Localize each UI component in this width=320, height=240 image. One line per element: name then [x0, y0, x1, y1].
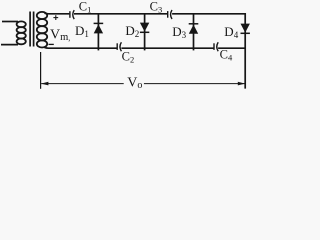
- wire: diode D2 branch: [144, 14, 146, 51]
- diode D4 (cathode down): [241, 24, 250, 34]
- wire: top rail from secondary to C1: [45, 12, 70, 15]
- wire: diode D3 branch: [193, 14, 195, 51]
- Vo dimension arrow left: [41, 82, 124, 86]
- capacitor C3: [168, 10, 172, 19]
- minus sign at secondary bottom: [49, 43, 54, 45]
- wire: middle rail node D (C4 to bottom-right corner): [218, 47, 245, 49]
- wire: diode D1 branch: [97, 14, 99, 51]
- wire: Vo left extension line: [40, 52, 42, 89]
- wire: top rail node B (C3 to top-right corner): [172, 14, 245, 23]
- wire: middle rail from secondary to C2: [45, 46, 118, 49]
- capacitor C4: [214, 42, 218, 51]
- diode D1 (cathode up): [94, 23, 104, 33]
- wire: top rail node A (C1 to C3, taps D1 D2): [74, 13, 168, 15]
- wire: middle rail node C (C2 to C4, taps D2 D3): [121, 47, 213, 49]
- transformer T1 secondary winding: [37, 12, 47, 48]
- diode D2 (cathode down): [140, 23, 149, 33]
- transformer T1 core: [29, 12, 31, 47]
- plus sign at secondary top: [53, 15, 58, 20]
- capacitor C2: [117, 42, 121, 51]
- wire: diode D4 branch / right V_o extension: [244, 23, 246, 89]
- transformer T1 primary winding: [17, 21, 26, 44]
- wire: AC input top lead: [2, 21, 18, 23]
- diode D3 (cathode up): [189, 24, 199, 34]
- Vo dimension arrow right: [144, 82, 245, 86]
- wire: AC input bottom lead: [1, 44, 18, 46]
- capacitor C1: [70, 10, 74, 19]
